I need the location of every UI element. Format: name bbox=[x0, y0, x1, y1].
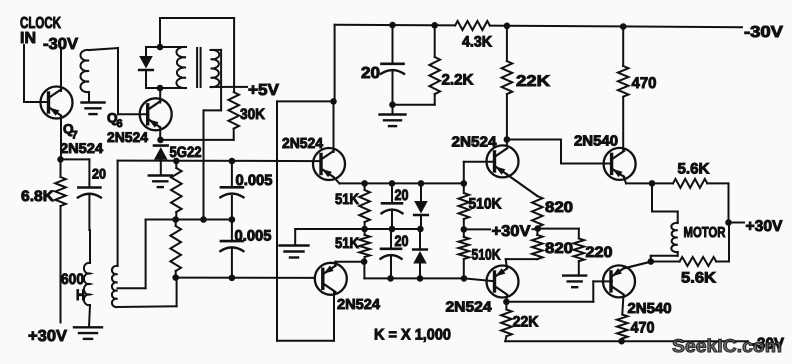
svg-text:+30V: +30V bbox=[492, 223, 532, 240]
svg-text:SeekIC.com: SeekIC.com bbox=[672, 335, 782, 356]
svg-text:600: 600 bbox=[61, 271, 84, 288]
svg-text:820: 820 bbox=[545, 199, 573, 216]
svg-text:510K: 510K bbox=[472, 247, 501, 264]
svg-text:2N540: 2N540 bbox=[628, 301, 672, 317]
svg-text:51K: 51K bbox=[335, 191, 359, 208]
svg-text:2N524: 2N524 bbox=[446, 300, 492, 316]
svg-text:30K: 30K bbox=[240, 106, 265, 123]
svg-text:2N540: 2N540 bbox=[574, 134, 618, 150]
svg-text:20: 20 bbox=[92, 166, 106, 182]
svg-text:22K: 22K bbox=[516, 73, 551, 90]
svg-text:2N524: 2N524 bbox=[337, 297, 380, 313]
svg-text:2N524: 2N524 bbox=[452, 135, 497, 151]
svg-text:470: 470 bbox=[632, 75, 657, 92]
svg-text:20: 20 bbox=[395, 187, 409, 204]
svg-text:2N524: 2N524 bbox=[282, 136, 323, 152]
svg-text:0.005: 0.005 bbox=[235, 227, 272, 244]
svg-text:2.2K: 2.2K bbox=[442, 72, 474, 89]
svg-text:4.3K: 4.3K bbox=[462, 34, 492, 51]
svg-text:MOTOR: MOTOR bbox=[684, 225, 726, 241]
svg-text:2N524: 2N524 bbox=[107, 129, 148, 145]
svg-text:470: 470 bbox=[631, 320, 655, 337]
svg-text:20: 20 bbox=[395, 233, 409, 250]
svg-text:K = X 1,000: K = X 1,000 bbox=[374, 327, 451, 344]
svg-text:+30V: +30V bbox=[746, 218, 784, 235]
svg-text:5.6K: 5.6K bbox=[678, 161, 710, 178]
svg-text:IN: IN bbox=[20, 30, 36, 47]
svg-text:220: 220 bbox=[586, 244, 613, 261]
svg-text:+5V: +5V bbox=[248, 82, 279, 99]
svg-text:-30V: -30V bbox=[744, 24, 783, 41]
svg-text:510K: 510K bbox=[469, 196, 502, 213]
svg-text:51K: 51K bbox=[335, 235, 359, 252]
svg-text:820: 820 bbox=[545, 240, 573, 257]
svg-text:+30V: +30V bbox=[28, 328, 67, 345]
svg-text:20: 20 bbox=[361, 65, 380, 82]
svg-text:2N524: 2N524 bbox=[60, 140, 103, 156]
svg-text:0.005: 0.005 bbox=[236, 172, 273, 189]
svg-text:6.8K: 6.8K bbox=[21, 188, 54, 205]
svg-text:H: H bbox=[76, 287, 85, 304]
svg-text:22K: 22K bbox=[513, 314, 539, 331]
svg-text:5.6K: 5.6K bbox=[681, 270, 716, 287]
